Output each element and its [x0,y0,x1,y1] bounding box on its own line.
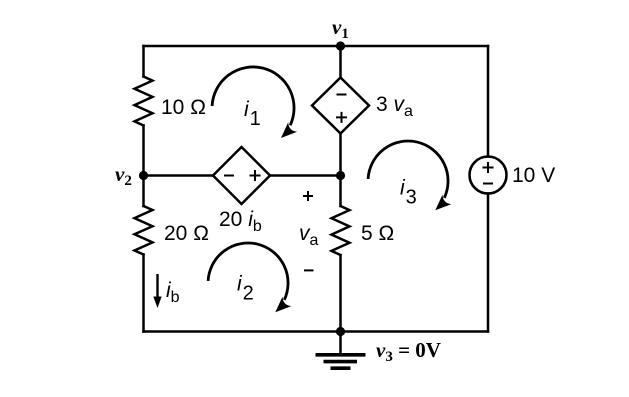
svg-text:i2: i2 [237,273,254,305]
svg-text:v2: v2 [115,162,132,189]
svg-text:20 Ω: 20 Ω [164,222,209,245]
wire middle node to 5 Ohm [339,176,342,207]
node ground dot [336,327,345,336]
resistor 20 Ohm [135,206,153,255]
loop arrow i1 [212,67,297,138]
node middle dot [336,171,345,180]
plus sign above va [303,191,313,201]
svg-text:10 Ω: 10 Ω [161,96,206,119]
minus sign below va [304,269,314,271]
wire diamond to middle node [339,134,342,176]
wire left upper lead [142,46,145,77]
dependent source 20 ib diamond [213,147,270,204]
node v1 dot [336,41,345,50]
svg-text:i1: i1 [244,98,261,130]
wire v1 down lead [339,46,342,78]
wire left middle lead [142,126,145,207]
svg-text:3 va: 3 va [376,93,413,120]
dependent source 3 va diamond [312,78,369,134]
wire top [144,45,489,48]
wire right (top half) [487,46,490,157]
wire left lower lead [142,255,145,332]
svg-text:v1: v1 [332,15,349,42]
loop arrow i2 [208,243,291,312]
wire right (bottom half) [487,194,490,332]
svg-text:v3 = 0V: v3 = 0V [376,338,441,365]
svg-text:5 Ω: 5 Ω [361,222,394,245]
svg-text:va: va [299,222,319,249]
ground symbol [316,332,366,369]
svg-text:10 V: 10 V [512,164,555,187]
wire middle horizontal left (v2 to diamond) [144,174,214,177]
plus/minus inside 10V source [483,162,494,184]
voltage source 10V circle [470,157,507,194]
svg-text:ib: ib [166,279,180,306]
wire 5 Ohm to ground node [339,255,342,332]
plus/minus inside 20 ib diamond [224,170,261,181]
node v2 dot [139,171,148,180]
wire bottom [144,330,489,333]
resistor 10 Ohm [135,77,153,126]
svg-text:20 ib: 20 ib [219,208,262,235]
resistor 5 Ohm [332,206,350,255]
plus/minus inside 3 va diamond [336,95,347,123]
loop arrow i3 [368,141,451,210]
svg-text:i3: i3 [400,177,417,209]
current arrow ib [153,274,161,308]
wire middle horizontal right (diamond to node) [270,174,341,177]
